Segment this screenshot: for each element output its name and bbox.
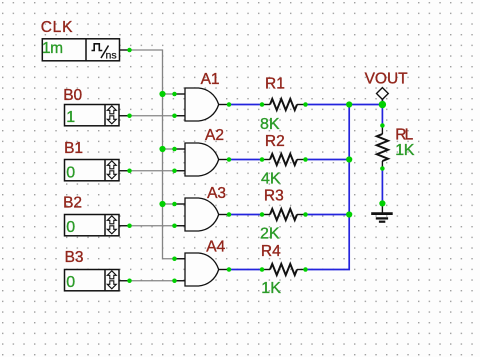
svg-text:1K: 1K [395,142,414,159]
svg-text:CLK: CLK [41,19,74,36]
svg-text:R1: R1 [265,76,285,93]
svg-text:4K: 4K [261,171,281,188]
svg-text:0: 0 [66,219,75,236]
svg-text:8K: 8K [260,116,280,133]
svg-text:0: 0 [66,274,75,291]
svg-text:R4: R4 [261,243,281,260]
svg-text:1: 1 [66,109,75,126]
svg-text:B0: B0 [63,87,82,104]
svg-text:1m: 1m [42,40,63,57]
svg-text:A3: A3 [207,185,226,202]
svg-text:A2: A2 [205,127,224,144]
svg-text:B2: B2 [63,195,82,212]
svg-text:R2: R2 [265,133,285,150]
svg-text:1K: 1K [261,280,281,297]
svg-text:B3: B3 [65,249,84,266]
svg-text:B1: B1 [64,140,83,157]
svg-text:A1: A1 [201,71,220,88]
svg-text:2K: 2K [260,226,280,243]
svg-text:0: 0 [66,164,75,181]
svg-text:A4: A4 [206,239,225,256]
svg-text:R3: R3 [264,188,284,205]
svg-text:ns: ns [106,50,117,62]
svg-text:VOUT: VOUT [365,70,409,87]
